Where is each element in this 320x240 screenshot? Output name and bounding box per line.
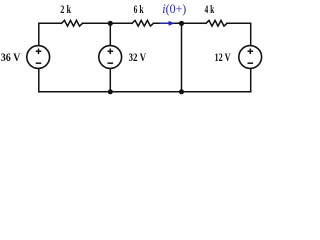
voltage source 36 V plus terminal xyxy=(36,49,42,55)
voltage source 36 V minus terminal xyxy=(36,62,42,64)
resistor 4 k xyxy=(206,20,227,26)
voltage source 12 V minus terminal xyxy=(248,62,254,64)
wire middle branch upper xyxy=(109,23,111,46)
wire bottom xyxy=(39,91,251,93)
svg-text:6 k: 6 k xyxy=(134,4,144,16)
current arrow i(0+) xyxy=(160,21,175,26)
svg-text:12 V: 12 V xyxy=(215,52,232,64)
wire right branch lower xyxy=(250,68,252,92)
node junction bottom right-middle xyxy=(179,89,184,94)
wire top-right segment xyxy=(227,23,251,46)
svg-text:2 k: 2 k xyxy=(60,4,71,16)
wire left branch lower xyxy=(38,68,40,92)
wire vertical branch node to node xyxy=(181,23,183,92)
node junction top right-middle xyxy=(179,21,184,26)
svg-text:36 V: 36 V xyxy=(1,52,21,64)
wire top-left segment xyxy=(39,23,62,46)
svg-text:32 V: 32 V xyxy=(129,52,147,64)
voltage source 32 V plus terminal xyxy=(108,49,114,55)
node junction bottom middle xyxy=(108,89,113,94)
resistor 2 k xyxy=(62,20,83,26)
voltage source 12 V circle xyxy=(239,46,262,69)
wire between 2 k and 6 k xyxy=(83,22,133,24)
voltage source 32 V circle xyxy=(99,46,122,69)
node junction top middle xyxy=(108,21,113,26)
wire middle branch lower xyxy=(109,68,111,92)
wire between 6 k and 4 k xyxy=(154,22,207,24)
resistor 6 k xyxy=(132,20,154,26)
svg-text:4 k: 4 k xyxy=(205,4,215,16)
voltage source 36 V circle xyxy=(27,46,50,69)
svg-text:i(0+): i(0+) xyxy=(162,1,186,16)
voltage source 12 V plus terminal xyxy=(248,49,254,55)
voltage source 32 V minus terminal xyxy=(108,62,114,64)
